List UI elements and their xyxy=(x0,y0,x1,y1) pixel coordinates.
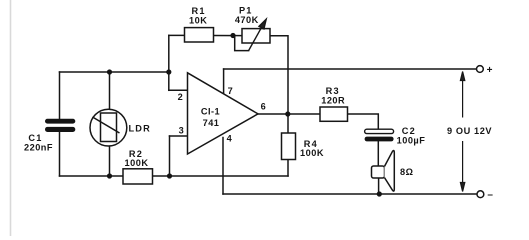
potentiometer P1 labels xyxy=(235,6,259,26)
wire LDR top vertical xyxy=(109,72,111,110)
resistor R4 labels xyxy=(300,139,324,158)
op-amp U1 triangle xyxy=(188,73,259,154)
wire pin2 horizontal xyxy=(169,89,188,91)
node A junction dot top-left rail at LDR xyxy=(107,69,112,74)
svg-text:120R: 120R xyxy=(321,96,345,106)
node E junction dot pin3 tee xyxy=(167,173,172,178)
terminal plus xyxy=(477,66,484,73)
svg-text:100µF: 100µF xyxy=(397,136,426,146)
capacitor C2 xyxy=(365,129,394,141)
wire P1 wiper return xyxy=(235,36,249,51)
node D junction dot LDR bottom xyxy=(107,173,112,178)
capacitor C1 labels xyxy=(24,133,53,153)
wire output pin6 xyxy=(258,113,320,115)
wire pin4 vertical xyxy=(222,138,224,195)
svg-text:470K: 470K xyxy=(235,15,259,25)
wire top-left horizontal xyxy=(60,71,169,73)
wire P1 right and down to output xyxy=(270,36,288,114)
wire C1 top vertical xyxy=(59,72,61,119)
svg-text:P1: P1 xyxy=(239,6,253,16)
LDR xyxy=(90,109,127,146)
wire R1 left xyxy=(169,34,185,36)
svg-text:–: – xyxy=(487,189,493,200)
svg-text:8Ω: 8Ω xyxy=(400,167,413,177)
resistor R1 labels xyxy=(189,6,207,25)
node G junction dot speaker bottom xyxy=(377,191,382,196)
wire pin3 vertical xyxy=(169,136,171,176)
resistor R3 xyxy=(320,107,348,121)
pin 7 label xyxy=(228,86,233,96)
svg-text:100K: 100K xyxy=(125,158,149,168)
svg-text:10K: 10K xyxy=(189,15,207,25)
wire LDR bottom vertical xyxy=(109,146,111,176)
pin 4 label xyxy=(227,134,233,144)
node C junction dot R1-P1 xyxy=(230,33,235,38)
voltage label 9 OU 12V xyxy=(447,126,492,136)
wire pin2 vertical xyxy=(168,35,170,90)
node B junction dot pin2 tee xyxy=(166,69,171,74)
wire R2 right to R4 bottom xyxy=(153,175,289,177)
voltage range arrow down xyxy=(460,141,464,192)
wire pin7 vertical xyxy=(223,69,225,93)
svg-text:R3: R3 xyxy=(326,86,340,96)
pin 3 label xyxy=(179,125,184,135)
resistor R3 labels xyxy=(321,86,345,106)
speaker LS1 xyxy=(372,151,395,192)
wire speaker to bottom rail xyxy=(378,178,380,194)
wire R4 top vertical xyxy=(287,114,289,133)
resistor R1 xyxy=(185,28,214,42)
speaker label 8 ohm xyxy=(400,167,413,177)
resistor R2 labels xyxy=(125,149,149,168)
svg-text:CI-1: CI-1 xyxy=(201,107,220,117)
svg-text:C2: C2 xyxy=(402,126,416,136)
LDR label xyxy=(129,124,151,134)
svg-text:3: 3 xyxy=(179,125,184,135)
terminal minus xyxy=(477,191,484,198)
svg-text:LDR: LDR xyxy=(129,124,151,134)
pin 2 label xyxy=(178,92,183,102)
pin 6 label xyxy=(261,101,266,111)
potentiometer P1 xyxy=(242,29,270,43)
svg-text:C1: C1 xyxy=(28,133,42,143)
resistor R4 xyxy=(282,133,296,160)
wire bottom-left horizontal to R2 xyxy=(60,175,124,177)
voltage range arrow up xyxy=(460,72,464,118)
svg-text:100K: 100K xyxy=(300,148,324,158)
svg-text:9 OU 12V: 9 OU 12V xyxy=(447,126,492,136)
wire R3 right to C2 xyxy=(348,114,379,129)
svg-text:7: 7 xyxy=(228,86,233,96)
wire R1 to P1 xyxy=(214,35,243,37)
svg-text:741: 741 xyxy=(203,118,220,128)
resistor R2 xyxy=(123,169,153,184)
svg-text:2: 2 xyxy=(178,92,183,102)
capacitor C1 xyxy=(45,119,75,132)
capacitor C2 labels xyxy=(397,126,426,146)
op-amp U1 labels xyxy=(201,107,220,129)
node F junction dot output xyxy=(285,111,290,116)
potentiometer P1 arrow xyxy=(249,19,267,50)
wire top rail to plus xyxy=(224,68,477,70)
svg-text:220nF: 220nF xyxy=(24,143,53,153)
wire bottom rail to minus xyxy=(223,193,477,195)
terminal plus label xyxy=(487,65,493,76)
svg-text:4: 4 xyxy=(227,134,233,144)
wire C1 bottom vertical xyxy=(59,132,61,177)
wire pin3 horizontal xyxy=(170,135,188,137)
wire R4 bottom vertical xyxy=(287,160,289,177)
wire C2 to speaker xyxy=(377,141,379,166)
svg-text:6: 6 xyxy=(261,101,266,111)
terminal minus label xyxy=(487,189,493,200)
svg-text:+: + xyxy=(487,65,493,76)
